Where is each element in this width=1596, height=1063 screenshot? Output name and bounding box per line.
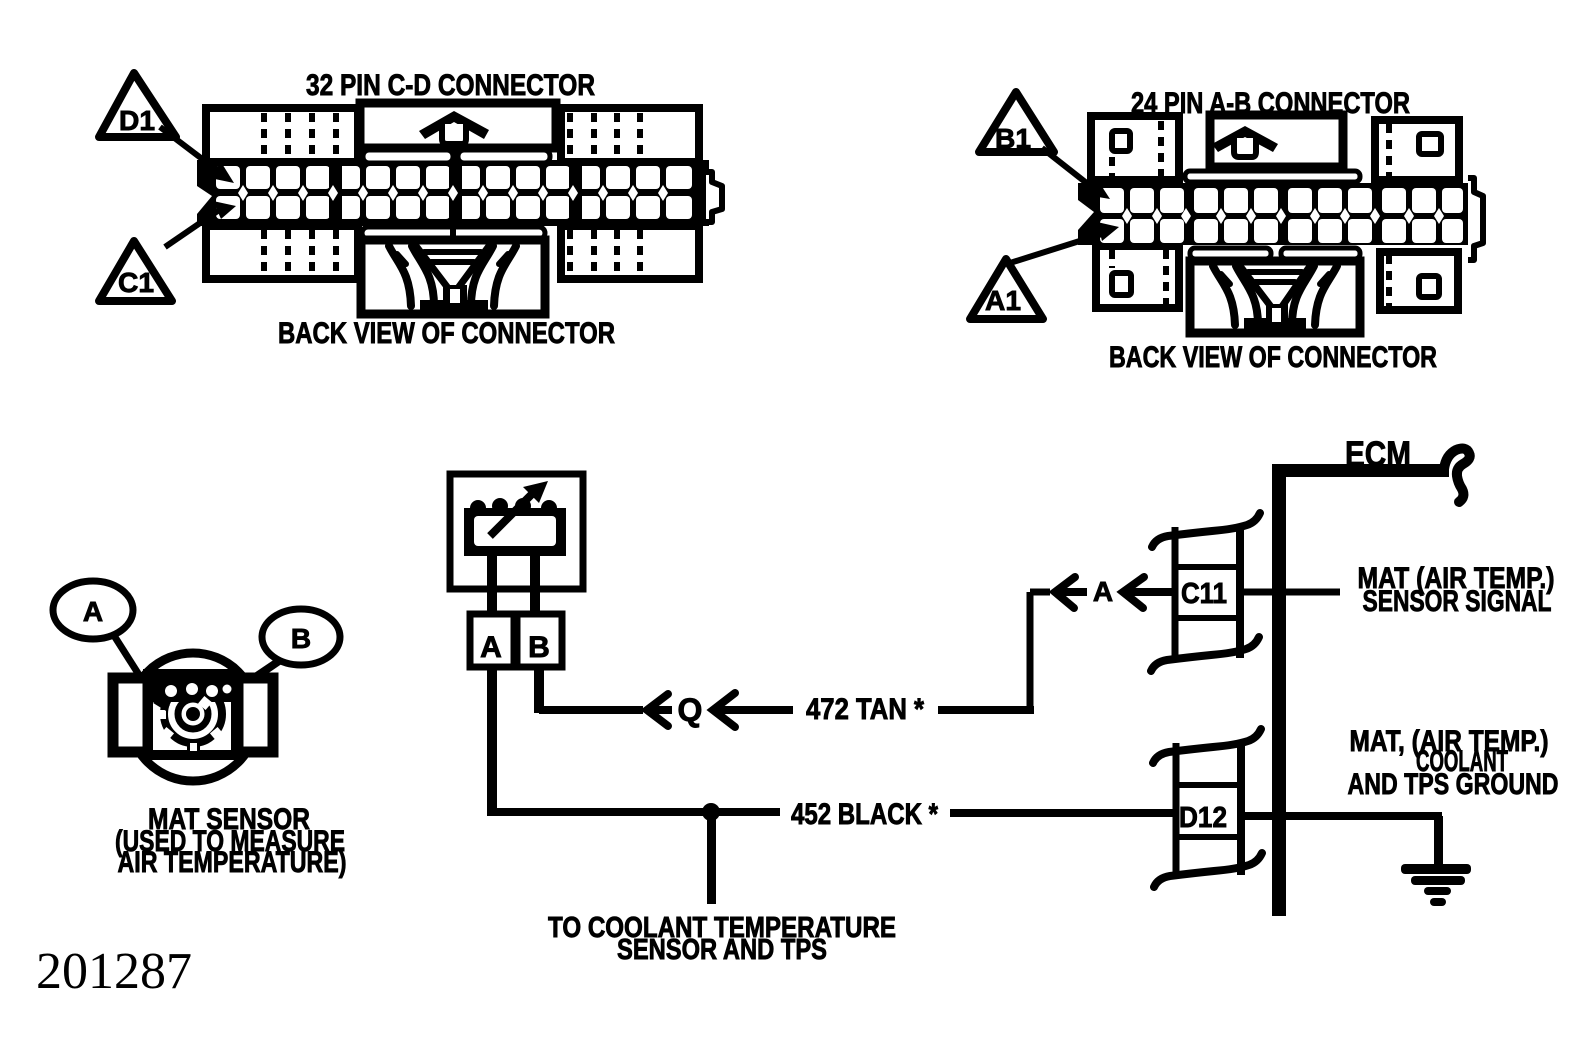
svg-text:B: B (291, 623, 311, 654)
svg-text:C11: C11 (1181, 578, 1227, 610)
svg-text:AND TPS GROUND: AND TPS GROUND (1348, 768, 1559, 801)
svg-text:B1: B1 (995, 123, 1031, 154)
svg-text:C1: C1 (118, 267, 154, 298)
svg-text:AIR TEMPERATURE): AIR TEMPERATURE) (118, 846, 347, 879)
svg-text:A: A (83, 596, 103, 627)
svg-text:452 BLACK *: 452 BLACK * (791, 798, 938, 831)
svg-text:A: A (480, 631, 502, 664)
svg-text:B: B (528, 631, 550, 664)
svg-text:BACK VIEW OF CONNECTOR: BACK VIEW OF CONNECTOR (278, 317, 615, 350)
svg-text:A1: A1 (985, 285, 1021, 316)
svg-text:ECM: ECM (1345, 435, 1411, 474)
svg-text:BACK VIEW OF CONNECTOR: BACK VIEW OF CONNECTOR (1109, 341, 1437, 374)
svg-text:SENSOR AND TPS: SENSOR AND TPS (617, 934, 827, 966)
svg-text:201287: 201287 (36, 943, 192, 1000)
svg-text:472 TAN *: 472 TAN * (806, 693, 924, 726)
svg-text:Q: Q (678, 692, 703, 728)
svg-text:D12: D12 (1179, 802, 1227, 834)
svg-text:D1: D1 (119, 105, 155, 136)
svg-text:32 PIN C-D CONNECTOR: 32 PIN C-D CONNECTOR (306, 69, 595, 102)
svg-text:A: A (1093, 576, 1113, 607)
svg-text:24 PIN A-B CONNECTOR: 24 PIN A-B CONNECTOR (1131, 87, 1410, 120)
svg-text:SENSOR SIGNAL: SENSOR SIGNAL (1363, 585, 1552, 618)
